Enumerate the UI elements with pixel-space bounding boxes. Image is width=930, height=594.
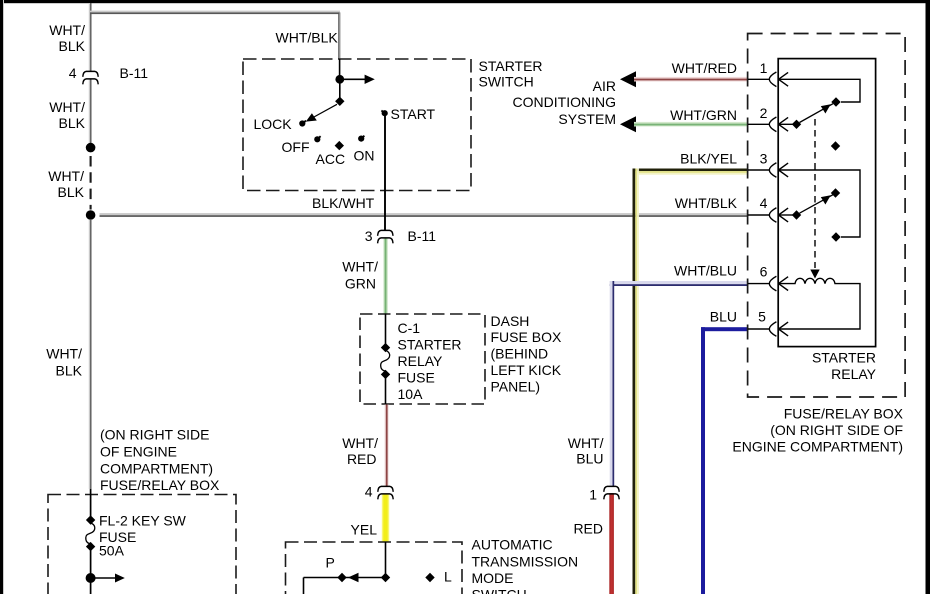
wire BLK/WHT from START down to connector B-11 (384, 116, 386, 231)
svg-text:RED: RED (347, 451, 377, 467)
pin 4 contact dot (779, 210, 801, 219)
svg-text:START: START (391, 106, 436, 122)
svg-text:SWITCH: SWITCH (472, 587, 527, 594)
pin 4 connector (769, 208, 788, 223)
label AUTOMATIC TRANSMISSION MODE SWITCH (472, 537, 579, 594)
svg-text:(BEHIND: (BEHIND (491, 346, 549, 362)
switch junction diamond (381, 573, 390, 582)
svg-text:OFF: OFF (282, 139, 310, 155)
fuse/relay box dashed box (right) (748, 34, 906, 398)
svg-text:BLK: BLK (59, 38, 86, 54)
svg-text:STARTER: STARTER (479, 58, 543, 74)
fuse C-1 lower diamond (381, 370, 390, 379)
svg-text:BLK: BLK (59, 115, 86, 131)
switch pivot diamond (335, 97, 344, 106)
relay arm target diamond (sw2) (831, 188, 840, 197)
wire WHT/RED horizontal (634, 77, 748, 82)
wire WHT/GRN vertical (383, 238, 387, 314)
fuse/relay box FL-2 dashed box (48, 495, 236, 594)
relay switch arm 2 (800, 195, 834, 214)
pin 6 stub wire (748, 283, 770, 285)
wire WHT/RED vertical (385, 405, 389, 487)
border frame right (926, 0, 930, 594)
border frame top (4, 0, 930, 3)
pin 3 connector (769, 163, 788, 178)
svg-text:C-1: C-1 (398, 320, 421, 336)
svg-text:WHT/BLK: WHT/BLK (276, 30, 339, 46)
connector B-11 top left (83, 71, 98, 84)
svg-text:FUSE: FUSE (398, 370, 435, 386)
label STARTER RELAY (812, 350, 877, 383)
fuse FL-2 squiggle (86, 523, 95, 544)
svg-text:WHT/GRN: WHT/GRN (670, 107, 737, 123)
svg-text:WHT/: WHT/ (568, 435, 604, 451)
svg-text:RELAY: RELAY (398, 353, 444, 369)
switch arm arrow pointing left at P (348, 573, 359, 582)
junction dot upper (86, 143, 96, 153)
pin 1 stub wire (748, 78, 770, 80)
svg-text:ENGINE COMPARTMENT): ENGINE COMPARTMENT) (732, 439, 903, 455)
svg-text:WHT/BLU: WHT/BLU (674, 263, 737, 279)
svg-text:FUSE/RELAY BOX: FUSE/RELAY BOX (100, 477, 220, 493)
svg-text:BLK: BLK (58, 184, 85, 200)
label (ON RIGHT SIDE OF ENGINE COMPARTMENT) FUSE/RELAY BOX left (100, 427, 220, 494)
switch arrow to right (340, 75, 375, 84)
contact ACC diamond (335, 141, 344, 150)
wire WHT/GRN horizontal (634, 122, 748, 127)
svg-text:4: 4 (760, 195, 768, 211)
wire WHT/BLK top horizontal to starter switch (90, 11, 340, 14)
pin 3 stub wire (748, 169, 770, 171)
svg-text:ACC: ACC (316, 151, 346, 167)
starter switch dashed box (243, 59, 471, 191)
label WHT/BLK (fourth) (46, 346, 82, 379)
pin 2 stub wire (748, 123, 770, 125)
connector 4 (378, 486, 393, 499)
wire WHT/BLU horizontal (610, 281, 748, 286)
svg-text:SYSTEM: SYSTEM (558, 111, 616, 127)
svg-text:FUSE/RELAY BOX: FUSE/RELAY BOX (784, 406, 904, 422)
contact LOCK (299, 120, 306, 126)
svg-text:LEFT KICK: LEFT KICK (491, 362, 562, 378)
svg-text:5: 5 (758, 309, 766, 325)
relay actuation dashed line (814, 119, 816, 268)
svg-text:WHT/: WHT/ (48, 168, 84, 184)
wire WHT/BLK long horizontal to relay pin 4 (100, 213, 749, 217)
svg-text:AIR: AIR (593, 78, 616, 94)
svg-text:BLK: BLK (56, 363, 83, 379)
label WHT/GRN (342, 259, 378, 292)
wire BLU horizontal (701, 327, 748, 331)
svg-text:10A: 10A (398, 386, 424, 402)
wire vertical to bottom in trans switch (303, 578, 305, 594)
svg-text:STARTER: STARTER (398, 337, 462, 353)
fuse C-1 upper diamond (381, 343, 390, 352)
svg-text:1: 1 (760, 60, 768, 76)
svg-text:OF ENGINE: OF ENGINE (100, 444, 177, 460)
arrow to AC system (pin2) (620, 116, 636, 132)
switch arm toward LOCK (306, 104, 337, 121)
label STARTER SWITCH (479, 58, 543, 90)
svg-text:RELAY: RELAY (831, 366, 877, 382)
relay free contact diamond (sw1) (831, 141, 840, 150)
wire WHT/BLU vertical (610, 281, 615, 487)
wire black into FL-2 fuse (90, 489, 92, 516)
relay actuation arrow (810, 270, 819, 279)
pin 2 contact dot (779, 120, 801, 129)
wire RED vertical (609, 493, 614, 594)
contact ON (358, 136, 364, 142)
svg-text:WHT/: WHT/ (342, 435, 378, 451)
svg-text:(ON RIGHT SIDE OF: (ON RIGHT SIDE OF (770, 422, 903, 438)
pin 2 connector (769, 117, 788, 132)
svg-text:STARTER: STARTER (812, 350, 876, 366)
contact OFF (314, 136, 320, 142)
svg-text:BLU: BLU (710, 309, 737, 325)
svg-text:P: P (326, 555, 335, 571)
svg-text:L: L (444, 569, 452, 585)
arrow to AC system (pin1) (620, 71, 636, 87)
junction dot lower (86, 210, 96, 220)
wire BLU vertical (701, 327, 705, 594)
svg-text:FL-2 KEY SW: FL-2 KEY SW (99, 513, 187, 529)
relay contact diamond pin3 (831, 232, 840, 241)
wire black into fuse (385, 314, 387, 345)
wire black from YEL to switch junction (385, 542, 387, 575)
pin 6 connector (769, 276, 788, 291)
wire black below fuse FL-2 (90, 550, 92, 594)
svg-text:GRN: GRN (345, 276, 376, 292)
svg-text:BLU: BLU (576, 451, 603, 467)
svg-text:B-11: B-11 (408, 228, 437, 244)
label WHT/BLK (third) (48, 168, 84, 200)
dash fuse box (C-1) dashed box (360, 314, 485, 404)
svg-text:DASH: DASH (491, 313, 530, 329)
fuse C-1 squiggle (381, 351, 390, 372)
svg-text:BLK/WHT: BLK/WHT (312, 195, 375, 211)
wire BLK/YEL vertical (633, 169, 639, 594)
svg-text:6: 6 (760, 264, 768, 280)
wire WHT/BLK dashed segment between junctions (90, 156, 92, 210)
svg-text:YEL: YEL (351, 522, 378, 538)
svg-text:4: 4 (365, 484, 373, 500)
svg-text:PANEL): PANEL) (491, 379, 541, 395)
svg-text:WHT/: WHT/ (49, 22, 85, 38)
svg-text:WHT/: WHT/ (342, 259, 378, 275)
pin 5 stub wire (748, 328, 770, 330)
relay contact diamond pin1 (831, 97, 840, 106)
pin 1 connector (769, 72, 788, 87)
svg-text:1: 1 (589, 487, 597, 503)
relay coil (779, 278, 860, 329)
label DASH FUSE BOX (BEHIND LEFT KICK PANEL) (491, 313, 562, 395)
label WHT/BLK (second) (49, 99, 85, 131)
starter relay solid box (778, 59, 875, 347)
switch stem down to pivot diamond (339, 79, 341, 99)
contact L diamond (425, 573, 434, 582)
svg-text:WHT/RED: WHT/RED (672, 60, 737, 76)
label WHT/BLK (top left) (49, 22, 85, 54)
wire black inside switch box (339, 59, 341, 79)
svg-text:BLK/YEL: BLK/YEL (680, 151, 737, 167)
pin 3 internal L line (779, 170, 860, 237)
svg-text:2: 2 (760, 105, 768, 121)
svg-text:RED: RED (573, 521, 603, 537)
label WHT/BLU (vertical wire) (568, 435, 604, 467)
svg-text:(ON RIGHT SIDE: (ON RIGHT SIDE (100, 427, 209, 443)
svg-text:WHT/: WHT/ (49, 99, 85, 115)
svg-text:SWITCH: SWITCH (479, 74, 534, 90)
wire YEL vertical (382, 494, 389, 543)
automatic transmission mode switch dashed box (286, 542, 463, 594)
label WHT/RED (vertical wire) (342, 435, 378, 467)
wire WHT/BLK left vertical down to fuse box (89, 220, 92, 489)
fuse FL-2 lower diamond (86, 542, 95, 551)
wire horizontal in trans switch (304, 577, 384, 579)
svg-text:3: 3 (365, 228, 373, 244)
svg-text:WHT/: WHT/ (46, 346, 82, 362)
pin 4 stub wire (748, 214, 770, 216)
border frame left (0, 0, 3, 594)
svg-text:CONDITIONING: CONDITIONING (513, 94, 616, 110)
connector B-11 mid (378, 230, 393, 243)
wire WHT/BLK vertical drop into starter switch box (338, 12, 341, 59)
svg-text:LOCK: LOCK (254, 116, 293, 132)
svg-text:50A: 50A (99, 543, 125, 559)
svg-text:FUSE BOX: FUSE BOX (491, 329, 562, 345)
label C-1 STARTER RELAY FUSE 10A (398, 320, 462, 402)
svg-text:TRANSMISSION: TRANSMISSION (472, 554, 579, 570)
svg-text:MODE: MODE (472, 570, 514, 586)
label FUSE/RELAY BOX (ON RIGHT SIDE OF ENGINE COMPARTMENT) (732, 406, 903, 455)
wire WHT/BLK below connector to junction (89, 79, 92, 147)
relay switch arm 1 (800, 104, 834, 123)
contact P diamond (337, 573, 346, 582)
wire black below fuse (385, 378, 387, 405)
switch common junction dot (335, 75, 344, 84)
pin 5 connector (769, 322, 788, 337)
arrow branch right (91, 574, 125, 583)
contact START (381, 110, 387, 116)
svg-text:WHT/BLK: WHT/BLK (675, 195, 738, 211)
wire BLK/YEL horizontal (633, 169, 748, 175)
junction dot FL-2 (86, 573, 96, 583)
pin 1 internal L line (779, 79, 860, 102)
svg-text:3: 3 (760, 151, 768, 167)
svg-text:B-11: B-11 (120, 65, 149, 81)
fuse FL-2 upper diamond (86, 515, 95, 524)
label FL-2 KEY SW FUSE 50A (99, 513, 187, 559)
svg-text:4: 4 (69, 65, 77, 81)
svg-text:COMPARTMENT): COMPARTMENT) (100, 461, 213, 477)
connector 1 (604, 486, 619, 499)
label AIR CONDITIONING SYSTEM (513, 78, 616, 127)
svg-text:AUTOMATIC: AUTOMATIC (472, 537, 553, 553)
svg-text:ON: ON (354, 148, 375, 164)
wire WHT/BLK top vertical from border to connector B-11 (89, 3, 92, 72)
